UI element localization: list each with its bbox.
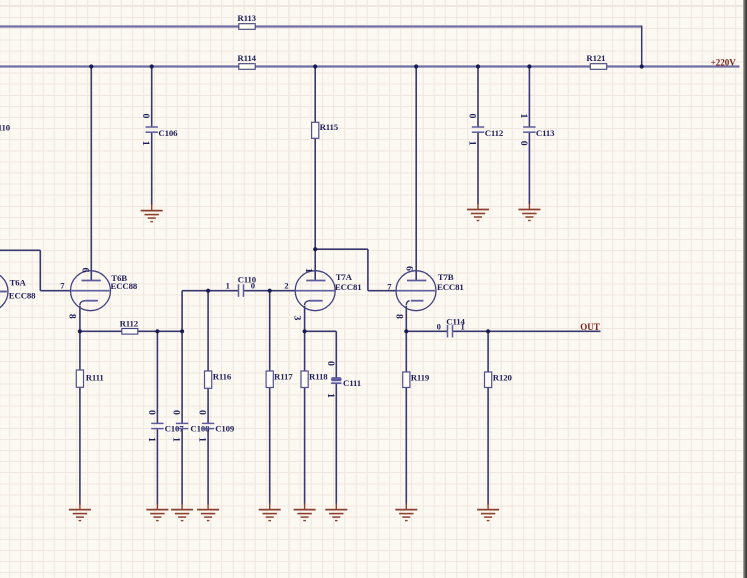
wire C110 node to R116 (207, 291, 209, 371)
svg-text:R114: R114 (237, 53, 256, 63)
wire C110 node to R117 (269, 291, 271, 371)
capacitor C111 (325, 361, 361, 398)
resistor R117 (266, 371, 293, 388)
svg-text:7: 7 (387, 281, 392, 291)
triode T7A ECC81 (295, 271, 361, 311)
wire T6B cathode hook (80, 301, 85, 305)
svg-text:ECC88: ECC88 (9, 291, 36, 301)
junction rail corner (640, 64, 644, 68)
wire out node to R120 (487, 331, 489, 372)
ground under R120 (477, 503, 499, 520)
wire R119 to ground (405, 388, 407, 505)
resistor R114 (237, 53, 256, 69)
svg-text:ECC81: ECC81 (335, 282, 362, 292)
junction T7A cathode node (303, 329, 307, 333)
wire drop to T6B grid (39, 250, 41, 290)
svg-text:1: 1 (460, 321, 464, 331)
wire from T6A plate area (0, 249, 40, 251)
resistor R115 (312, 122, 339, 138)
svg-text:0: 0 (325, 361, 336, 366)
svg-text:0: 0 (197, 410, 208, 415)
wire R117 to ground (269, 388, 271, 505)
junction T7B cathode node (404, 329, 408, 333)
wire down to C111 (335, 331, 337, 377)
wire C114 pin 1 to OUT (453, 330, 601, 332)
junction T6B cathode node (78, 329, 82, 333)
triode T7B ECC81 (396, 271, 464, 311)
wire rail to C113 (528, 67, 530, 128)
svg-text:6: 6 (404, 266, 415, 271)
wire R111 to ground (79, 387, 81, 504)
wire cathode node to C111 branch (305, 330, 337, 332)
wire C111 to ground (335, 383, 337, 505)
wire C110 pin 0 to T7A grid (244, 290, 296, 292)
wire T7A plate feed (314, 249, 316, 280)
wire cathode node to C114 pin 0 (406, 330, 447, 332)
junction C106 tap (150, 64, 154, 68)
wire C108 branch upper (181, 331, 183, 423)
wire R111 top (79, 331, 81, 370)
wire T7B plate feed (415, 67, 417, 281)
capacitor C114 (446, 316, 465, 337)
svg-text:0: 0 (251, 281, 255, 291)
svg-text:2: 2 (284, 281, 288, 291)
svg-text:R119: R119 (411, 373, 430, 383)
wire T6A grid stub (0, 291, 6, 293)
svg-text:0: 0 (518, 141, 529, 146)
ground under R118 (294, 503, 316, 520)
wire to C110 pin 1 (182, 290, 238, 292)
wire C113 to ground (528, 132, 530, 204)
ground under C109 (197, 503, 219, 520)
wire R120 to ground (487, 388, 489, 505)
svg-text:C106: C106 (158, 128, 178, 138)
window edge strip (743, 0, 747, 578)
svg-text:1: 1 (325, 393, 336, 398)
wire node up from R112 end (181, 291, 183, 332)
wire T6B cathode drop (79, 306, 81, 332)
svg-text:ECC81: ECC81 (437, 282, 464, 292)
capacitor C113 (518, 114, 555, 146)
capacitor C112 (466, 114, 504, 146)
svg-text:C111: C111 (343, 378, 361, 388)
svg-text:R115: R115 (320, 122, 339, 132)
svg-text:R110: R110 (0, 122, 11, 132)
wire T7A cathode hook (305, 301, 310, 305)
svg-text:3: 3 (292, 315, 303, 320)
wire drop to T7B grid (367, 249, 369, 291)
junction OUT node (486, 329, 490, 333)
wire R115 to plate node (314, 138, 316, 249)
svg-text:0: 0 (171, 410, 182, 415)
junction C110 right node (268, 289, 272, 293)
svg-text:T7A: T7A (336, 272, 353, 282)
svg-text:8: 8 (66, 314, 77, 319)
resistor R113 (237, 13, 256, 29)
svg-text:R121: R121 (586, 53, 605, 63)
wire into T6B grid pin 7 (40, 290, 71, 292)
wire cathode node to R119 (405, 331, 407, 372)
ground under C111 (325, 503, 347, 520)
ground under C106 (141, 204, 163, 221)
svg-text:R120: R120 (493, 373, 513, 383)
svg-text:1: 1 (518, 114, 529, 119)
svg-text:0: 0 (146, 410, 157, 415)
triode T6B ECC88 (71, 271, 138, 311)
resistor R120 (485, 372, 513, 388)
wire rail to R115 (314, 67, 316, 123)
svg-text:1: 1 (146, 437, 157, 442)
svg-text:1: 1 (466, 141, 477, 146)
capacitor C107 (146, 410, 184, 442)
capacitor C109 (197, 410, 235, 442)
ground under R119 (395, 503, 417, 520)
junction T7A plate node (313, 247, 317, 251)
wire R116 to C109 (207, 388, 209, 423)
wire into T7B grid pin 7 (368, 290, 396, 292)
svg-text:C112: C112 (485, 128, 504, 138)
resistor R112 (120, 318, 139, 334)
wire C106 to ground (151, 132, 153, 205)
svg-text:R112: R112 (120, 318, 139, 328)
resistor R118 (301, 371, 328, 388)
svg-text:R118: R118 (309, 372, 328, 382)
svg-text:R111: R111 (86, 373, 104, 383)
svg-text:1: 1 (197, 437, 208, 442)
wire +220V rail upper segment (0, 25, 642, 27)
svg-text:C113: C113 (536, 128, 555, 138)
svg-text:7: 7 (60, 281, 65, 291)
wire C109 to ground (207, 429, 209, 505)
svg-text:+220V: +220V (711, 57, 737, 67)
svg-text:OUT: OUT (580, 322, 600, 332)
svg-text:6: 6 (80, 268, 91, 273)
svg-text:ECC88: ECC88 (111, 281, 138, 291)
capacitor C108 (171, 410, 211, 442)
svg-text:R113: R113 (237, 13, 256, 23)
svg-text:T7B: T7B (438, 272, 454, 282)
junction C112 tap (476, 64, 480, 68)
junction C107 node (155, 329, 159, 333)
svg-text:0: 0 (140, 114, 151, 119)
junction C113 tap (527, 64, 531, 68)
wire C108 to ground (181, 429, 183, 505)
ground under R111 (69, 503, 91, 520)
junction T7B plate feed (414, 64, 418, 68)
svg-text:R116: R116 (213, 372, 232, 382)
junction C108 node (180, 329, 184, 333)
wire cathode node to R118 (304, 331, 306, 371)
wire rail to C112 (477, 67, 479, 128)
svg-text:R117: R117 (274, 372, 293, 382)
resistor R116 (205, 371, 232, 388)
svg-text:8: 8 (394, 314, 405, 319)
svg-text:0: 0 (466, 114, 477, 119)
svg-text:T6A: T6A (10, 278, 27, 288)
ground under C112 (467, 203, 489, 220)
capacitor C106 (140, 114, 178, 146)
wire T7A cathode drop (304, 306, 306, 332)
svg-text:C109: C109 (215, 424, 235, 434)
wire cathode row to R112 (80, 330, 182, 332)
junction R115 tap (313, 64, 317, 68)
ground under R117 (259, 503, 281, 520)
ground under C108 (171, 503, 193, 520)
svg-text:1: 1 (171, 437, 182, 442)
junction C110 left node (206, 289, 210, 293)
wire T6B plate feed (90, 67, 92, 281)
svg-text:1: 1 (226, 281, 230, 291)
wire T7B cathode hook (406, 301, 409, 305)
wire T7B cathode drop (405, 306, 407, 332)
ground under C107 (146, 503, 168, 520)
resistor R111 (76, 370, 103, 387)
ground under C113 (518, 203, 540, 220)
wire C112 to ground (477, 132, 479, 204)
wire rail corner drop (641, 26, 643, 67)
triode T6A ECC88 (0, 272, 36, 312)
wire C107 branch upper (156, 331, 158, 423)
svg-text:1: 1 (303, 268, 314, 273)
resistor R121 (586, 53, 606, 69)
wire R118 to ground (304, 388, 306, 505)
junction T6B plate feed (89, 64, 93, 68)
svg-text:1: 1 (140, 141, 151, 146)
svg-text:0: 0 (437, 321, 441, 331)
wire +220V rail lower segment (0, 65, 740, 67)
wire plate node across (315, 248, 368, 250)
wire C107 to ground (156, 429, 158, 505)
wire rail to C106 (151, 67, 153, 128)
resistor R119 (403, 372, 430, 388)
capacitor C110 (238, 274, 257, 296)
